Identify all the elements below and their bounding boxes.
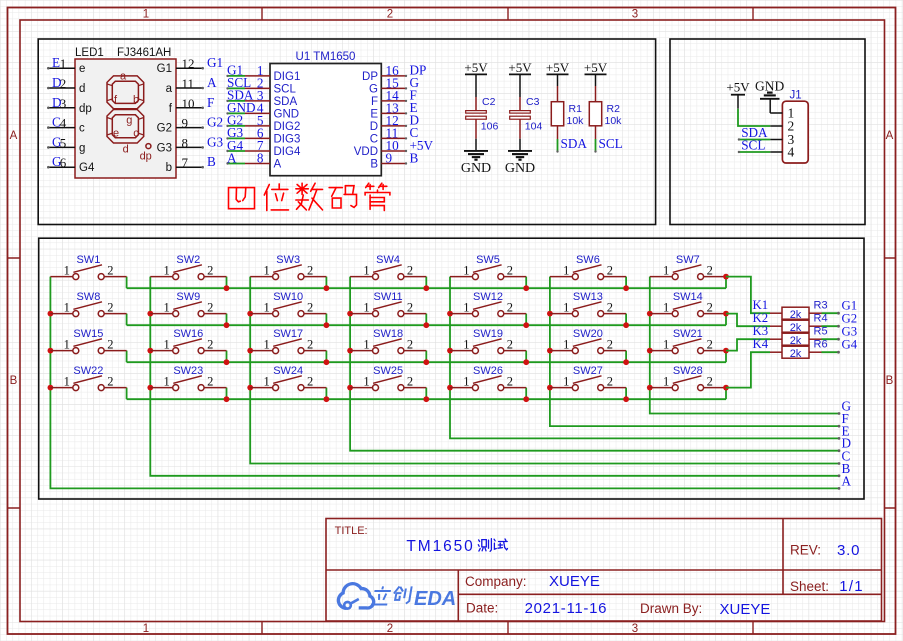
svg-text:DIG1: DIG1	[274, 71, 301, 83]
LCEDA logo text 立创EDA	[371, 586, 412, 604]
svg-text:A: A	[886, 130, 894, 142]
svg-text:SW28: SW28	[673, 365, 703, 377]
svg-text:FJ3461AH: FJ3461AH	[117, 47, 171, 59]
svg-text:SW3: SW3	[276, 254, 300, 266]
junction column 4 row 3	[347, 348, 353, 354]
svg-text:3: 3	[632, 623, 638, 635]
junction column 5 row 3	[447, 348, 453, 354]
wire drop SW26 pin2	[525, 388, 527, 400]
svg-text:SDA: SDA	[561, 136, 588, 151]
LED1 right pin 12 (G1) net G1	[157, 55, 223, 75]
capacitor C3 104	[510, 74, 543, 150]
junction row 4 col 3	[324, 396, 330, 402]
svg-text:G4: G4	[79, 162, 95, 174]
junction row 1 col 4	[423, 285, 429, 291]
7-seg display LED1	[75, 59, 176, 178]
wire drop SW19 pin2	[525, 351, 527, 363]
U1 pin 13 (E) net E	[370, 100, 417, 120]
svg-text:SW1: SW1	[76, 254, 100, 266]
resistor R4 2k	[770, 313, 828, 334]
svg-text:SCL: SCL	[599, 136, 623, 151]
switch SW4	[350, 254, 426, 280]
switch SW11	[350, 291, 426, 317]
svg-text:SW4: SW4	[376, 254, 400, 266]
svg-text:2k: 2k	[790, 348, 802, 360]
junction row 4 col 5	[523, 396, 529, 402]
svg-text:10k: 10k	[567, 115, 585, 127]
LED1 left pin 1 (e) net E	[47, 55, 85, 75]
junction column 3 row 4	[247, 385, 253, 391]
frame column ticks top	[262, 8, 753, 21]
J1 pin 1	[770, 106, 794, 121]
junction column 6 row 3	[547, 348, 553, 354]
junction row 3 col 4	[423, 359, 429, 365]
svg-text:K4: K4	[753, 337, 769, 351]
svg-text:LED1: LED1	[75, 47, 104, 59]
svg-text:1: 1	[363, 337, 369, 351]
svg-text:REV:: REV:	[790, 543, 821, 558]
U1 pin 12 (D) net D	[370, 113, 419, 133]
svg-text:+5V: +5V	[726, 80, 750, 95]
svg-text:2: 2	[207, 374, 213, 388]
wire K2 jog	[726, 314, 770, 327]
junction row 4 col 4	[423, 396, 429, 402]
7-seg digit glyph lower ring (segments g e c d)	[107, 110, 144, 144]
svg-text:SW19: SW19	[473, 328, 503, 340]
switch SW16	[150, 328, 226, 354]
svg-text:K1: K1	[753, 298, 769, 312]
svg-text:SW20: SW20	[573, 328, 603, 340]
svg-text:3: 3	[60, 96, 67, 111]
svg-text:2: 2	[387, 9, 393, 21]
junction SW28 pin2 node	[723, 385, 729, 391]
svg-text:SCL: SCL	[741, 138, 765, 153]
svg-text:2: 2	[307, 263, 313, 277]
U1 pin 5 (DIG2) net G2	[226, 113, 300, 133]
wire drop SW28 pin2	[725, 388, 727, 400]
svg-text:1: 1	[563, 337, 569, 351]
svg-text:GND: GND	[505, 161, 535, 176]
7-seg dp circle	[146, 144, 151, 149]
svg-text:G: G	[842, 399, 852, 414]
svg-text:1: 1	[143, 623, 149, 635]
switch SW20	[550, 328, 626, 354]
wire drop SW13 pin2	[625, 314, 627, 326]
U1 pin 4 (GND) net GND	[226, 100, 299, 120]
svg-text:C3: C3	[526, 96, 540, 108]
svg-text:1: 1	[363, 263, 369, 277]
svg-text:2: 2	[607, 337, 613, 351]
svg-text:B: B	[10, 375, 18, 387]
LED1 right pin 9 (G2) net G2	[157, 115, 223, 135]
svg-text:2: 2	[507, 263, 513, 277]
svg-text:SW16: SW16	[173, 328, 203, 340]
ground below C2	[461, 151, 491, 176]
wire drop SW22 pin2	[126, 388, 128, 400]
svg-text:SW15: SW15	[73, 328, 103, 340]
wire column 4 (pin1 bus) down to row D	[350, 277, 839, 451]
+5V symbol above R1	[546, 60, 570, 75]
U1 pin 2 (SCL) net SCL	[226, 75, 296, 95]
7-seg corner miter lines	[107, 84, 144, 135]
svg-text:A: A	[207, 75, 217, 90]
svg-text:b: b	[166, 162, 172, 174]
wire column 7 (pin1 bus) down to row G	[650, 277, 839, 414]
svg-text:2k: 2k	[790, 335, 802, 347]
svg-text:EDA: EDA	[414, 588, 456, 610]
svg-text:R5: R5	[814, 326, 828, 338]
wire drop SW18 pin2	[425, 351, 427, 363]
svg-text:1: 1	[563, 374, 569, 388]
svg-text:R6: R6	[814, 339, 828, 351]
junction row 2 col 5	[523, 322, 529, 328]
svg-text:+5V: +5V	[584, 60, 608, 75]
title block frame	[326, 519, 882, 622]
svg-text:1: 1	[164, 337, 170, 351]
switch SW25	[350, 365, 426, 391]
svg-text:3.0: 3.0	[837, 542, 860, 559]
svg-text:2: 2	[407, 300, 413, 314]
svg-text:1: 1	[164, 374, 170, 388]
svg-text:2: 2	[607, 374, 613, 388]
svg-text:2: 2	[607, 300, 613, 314]
wire row K3 horizontal	[127, 361, 726, 363]
svg-text:2: 2	[507, 300, 513, 314]
wire K4 jog	[726, 352, 770, 387]
svg-text:a: a	[166, 83, 173, 95]
connector J1 body	[782, 101, 808, 163]
svg-text:c: c	[133, 128, 139, 140]
svg-text:R2: R2	[607, 103, 621, 115]
svg-text:c: c	[79, 123, 85, 135]
wire column 3 (pin1 bus) down to row C	[250, 277, 839, 464]
svg-text:d: d	[79, 83, 85, 95]
svg-text:a: a	[120, 71, 127, 83]
junction column 2 row 4	[147, 385, 153, 391]
svg-text:2: 2	[107, 300, 113, 314]
junction row 3 col 5	[523, 359, 529, 365]
svg-text:2: 2	[207, 337, 213, 351]
svg-text:SW13: SW13	[573, 291, 603, 303]
switch SW10	[250, 291, 326, 317]
LED1 left pin 3 (dp) net D	[47, 95, 92, 115]
LED1 left pin 4 (c) net C	[47, 115, 85, 135]
svg-text:SW6: SW6	[576, 254, 600, 266]
svg-text:TITLE:: TITLE:	[335, 525, 368, 537]
U1 pin 8 (A) net A	[226, 150, 281, 170]
wire drop SW14 pin2	[725, 314, 727, 326]
svg-text:104: 104	[525, 121, 543, 133]
junction column 2 row 3	[147, 348, 153, 354]
junction row 3 col 6	[623, 359, 629, 365]
wire SCL to J1 pin4	[738, 138, 771, 154]
svg-text:2: 2	[307, 374, 313, 388]
node wire-end dot bus G	[838, 412, 841, 415]
LED1 right pin 10 (f) net F	[169, 95, 215, 115]
wire drop SW1 pin2	[126, 277, 128, 289]
svg-text:2: 2	[307, 300, 313, 314]
svg-text:1: 1	[60, 56, 67, 71]
junction SW21 pin2 node	[723, 348, 729, 354]
IC U1 TM1650 body	[270, 64, 381, 176]
svg-text:G2: G2	[207, 115, 223, 130]
svg-text:1: 1	[164, 300, 170, 314]
node wire-end dot bus E	[838, 437, 841, 440]
junction row 1 col 5	[523, 285, 529, 291]
svg-text:A: A	[274, 159, 282, 171]
junction row 2 col 2	[224, 322, 230, 328]
svg-text:1: 1	[663, 337, 669, 351]
svg-text:TM1650: TM1650	[406, 538, 474, 555]
svg-text:2: 2	[107, 374, 113, 388]
wire drop SW20 pin2	[625, 351, 627, 363]
svg-text:2: 2	[407, 337, 413, 351]
junction row 4 col 2	[224, 396, 230, 402]
junction row 4 col 6	[623, 396, 629, 402]
wire drop SW4 pin2	[425, 277, 427, 289]
svg-text:1: 1	[563, 263, 569, 277]
wire drop SW7 pin2	[725, 277, 727, 289]
svg-text:2: 2	[407, 263, 413, 277]
junction column 2 row 2	[147, 311, 153, 317]
svg-text:G1: G1	[842, 299, 858, 313]
svg-text:1: 1	[263, 374, 269, 388]
svg-text:SW17: SW17	[273, 328, 303, 340]
ground below C3	[505, 151, 535, 176]
wire G4 stub right of R6	[822, 338, 858, 354]
svg-text:SW5: SW5	[476, 254, 500, 266]
junction row 3 col 3	[324, 359, 330, 365]
node wire-end dot bus D	[838, 449, 841, 452]
svg-text:2021-11-16: 2021-11-16	[525, 600, 608, 617]
switch SW17	[250, 328, 326, 354]
svg-text:G1: G1	[157, 63, 172, 75]
wire drop SW6 pin2	[625, 277, 627, 289]
svg-text:C: C	[370, 134, 378, 146]
svg-text:F: F	[207, 95, 214, 110]
wire drop SW16 pin2	[226, 351, 228, 363]
svg-text:GND: GND	[755, 79, 784, 94]
svg-text:Company:: Company:	[465, 574, 527, 589]
svg-text:7: 7	[182, 155, 189, 170]
title block labels	[335, 525, 368, 537]
svg-text:dp: dp	[140, 151, 152, 163]
wire G3 stub right of R5	[822, 325, 858, 341]
junction column 1 row 4	[48, 385, 54, 391]
switch SW15	[50, 328, 126, 354]
svg-text:SW2: SW2	[176, 254, 200, 266]
svg-text:SW23: SW23	[173, 365, 203, 377]
svg-text:1/1: 1/1	[839, 578, 863, 595]
wire G2 stub right of R4	[822, 312, 858, 328]
svg-text:G2: G2	[157, 123, 172, 135]
switch SW5	[450, 254, 526, 280]
svg-text:B: B	[410, 150, 419, 165]
+5V symbol feeding J1 pin2	[726, 80, 750, 109]
svg-text:e: e	[113, 128, 119, 140]
svg-text:+5V: +5V	[546, 60, 570, 75]
junction row 3 col 2	[224, 359, 230, 365]
svg-text:dp: dp	[79, 103, 92, 115]
junction column 3 row 2	[247, 311, 253, 317]
svg-text:DIG2: DIG2	[274, 121, 301, 133]
svg-text:2: 2	[107, 337, 113, 351]
wire drop SW21 pin2	[725, 351, 727, 363]
svg-text:2: 2	[107, 263, 113, 277]
svg-text:2: 2	[407, 374, 413, 388]
svg-text:R3: R3	[814, 300, 828, 312]
svg-text:6: 6	[60, 155, 67, 170]
section box: key matrix	[39, 238, 864, 499]
wire drop SW10 pin2	[325, 314, 327, 326]
capacitor C2 106	[466, 74, 499, 150]
wire drop SW11 pin2	[425, 314, 427, 326]
svg-text:2k: 2k	[790, 322, 802, 334]
svg-text:1: 1	[563, 300, 569, 314]
+5V symbol above C3	[508, 60, 532, 75]
svg-text:4: 4	[788, 145, 795, 160]
junction column 7 row 2	[647, 311, 653, 317]
switch SW26	[450, 365, 526, 391]
svg-text:Date:: Date:	[466, 601, 498, 616]
switch SW21	[650, 328, 726, 354]
wire K1 jog	[726, 277, 770, 314]
wire drop SW5 pin2	[525, 277, 527, 289]
svg-text:XUEYE: XUEYE	[549, 573, 600, 590]
switch SW8	[50, 291, 126, 317]
wire stub with net label SCL below R2	[594, 136, 622, 153]
svg-text:1: 1	[143, 9, 149, 21]
U1 pin 11 (C) net C	[370, 125, 419, 145]
wire drop SW15 pin2	[126, 351, 128, 363]
svg-text:SW18: SW18	[373, 328, 403, 340]
svg-text:2: 2	[607, 263, 613, 277]
wire drop SW2 pin2	[226, 277, 228, 289]
J1 pin 2	[770, 119, 794, 134]
svg-text:3: 3	[632, 9, 638, 21]
svg-text:G2: G2	[842, 312, 858, 326]
junction row 1 col 3	[324, 285, 330, 291]
svg-text:G: G	[369, 84, 378, 96]
junction column 4 row 4	[347, 385, 353, 391]
svg-text:d: d	[123, 144, 129, 156]
svg-text:9: 9	[182, 116, 189, 131]
svg-text:1: 1	[663, 374, 669, 388]
svg-text:G1: G1	[207, 55, 223, 70]
U1 pin 9 (B) net B	[370, 150, 418, 170]
svg-text:SW11: SW11	[374, 291, 403, 303]
svg-text:1: 1	[263, 263, 269, 277]
wire drop SW9 pin2	[226, 314, 228, 326]
svg-text:1: 1	[263, 300, 269, 314]
svg-text:1: 1	[363, 300, 369, 314]
node wire-end dot bus C	[838, 462, 841, 465]
svg-text:XUEYE: XUEYE	[720, 601, 771, 618]
junction column 3 row 3	[247, 348, 253, 354]
LED1 right pin 11 (a) net A	[166, 75, 217, 95]
svg-text:2: 2	[707, 374, 713, 388]
switch SW1	[50, 254, 126, 280]
svg-text:SW27: SW27	[573, 365, 603, 377]
svg-text:Sheet:: Sheet:	[790, 579, 829, 594]
svg-text:SW26: SW26	[473, 365, 503, 377]
svg-text:2: 2	[507, 374, 513, 388]
LED1 left pin 6 (G4) net G	[47, 154, 95, 174]
wire drop SW25 pin2	[425, 388, 427, 400]
svg-text:SW8: SW8	[76, 291, 100, 303]
node wire-end dot bus B	[838, 474, 841, 477]
svg-text:SW12: SW12	[473, 291, 503, 303]
junction column 1 row 2	[48, 311, 54, 317]
svg-text:1: 1	[263, 337, 269, 351]
svg-text:g: g	[126, 115, 132, 127]
switch SW3	[250, 254, 326, 280]
svg-text:2: 2	[60, 76, 67, 91]
wire column 1 (pin1 bus) down to row A	[50, 277, 839, 489]
svg-text:1: 1	[663, 300, 669, 314]
junction column 6 row 2	[547, 311, 553, 317]
svg-text:SCL: SCL	[274, 84, 297, 96]
svg-text:2: 2	[707, 263, 713, 277]
svg-text:SW22: SW22	[73, 365, 103, 377]
resistor R1 10k	[551, 74, 584, 139]
svg-text:A: A	[227, 150, 237, 165]
wire row K2 horizontal	[127, 324, 726, 326]
junction column 1 row 3	[48, 348, 54, 354]
node wire-end dot bus A	[838, 487, 841, 490]
svg-text:DP: DP	[362, 71, 378, 83]
svg-text:1: 1	[463, 300, 469, 314]
wire column 5 (pin1 bus) down to row E	[450, 277, 839, 439]
svg-text:12: 12	[182, 56, 195, 71]
junction row 2 col 3	[324, 322, 330, 328]
svg-text:1: 1	[463, 374, 469, 388]
wire drop SW8 pin2	[126, 314, 128, 326]
svg-text:10k: 10k	[605, 115, 623, 127]
U1 pin 6 (DIG3) net G3	[226, 125, 300, 145]
svg-text:R1: R1	[569, 103, 583, 115]
svg-text:10: 10	[182, 96, 195, 111]
svg-text:SW9: SW9	[176, 291, 200, 303]
svg-text:11: 11	[182, 76, 195, 91]
junction row 1 col 2	[224, 285, 230, 291]
wire column 6 (pin1 bus) down to row F	[550, 277, 839, 427]
svg-text:D: D	[370, 121, 378, 133]
J1 pin 3	[770, 132, 794, 147]
svg-text:A: A	[10, 130, 18, 142]
junction column 4 row 2	[347, 311, 353, 317]
switch SW22	[50, 365, 126, 391]
svg-text:2k: 2k	[790, 309, 802, 321]
wire +5V to J1 pin2	[738, 109, 770, 126]
switch SW19	[450, 328, 526, 354]
svg-text:B: B	[886, 375, 894, 387]
svg-text:DIG4: DIG4	[274, 146, 301, 158]
switch SW12	[450, 291, 526, 317]
+5V symbol above R2	[584, 60, 608, 75]
U1 pin 7 (DIG4) net G4	[226, 138, 301, 158]
svg-text:8: 8	[182, 135, 189, 150]
svg-text:B: B	[207, 154, 216, 169]
resistor R3 2k	[770, 300, 828, 321]
U1 pin 10 (VDD) net +5V	[354, 138, 434, 158]
svg-text:2: 2	[507, 337, 513, 351]
wire drop SW3 pin2	[325, 277, 327, 289]
wire drop SW23 pin2	[226, 388, 228, 400]
LED1 right pin 8 (G3) net G3	[157, 134, 224, 154]
svg-text:2: 2	[207, 263, 213, 277]
svg-text:K3: K3	[753, 324, 769, 338]
